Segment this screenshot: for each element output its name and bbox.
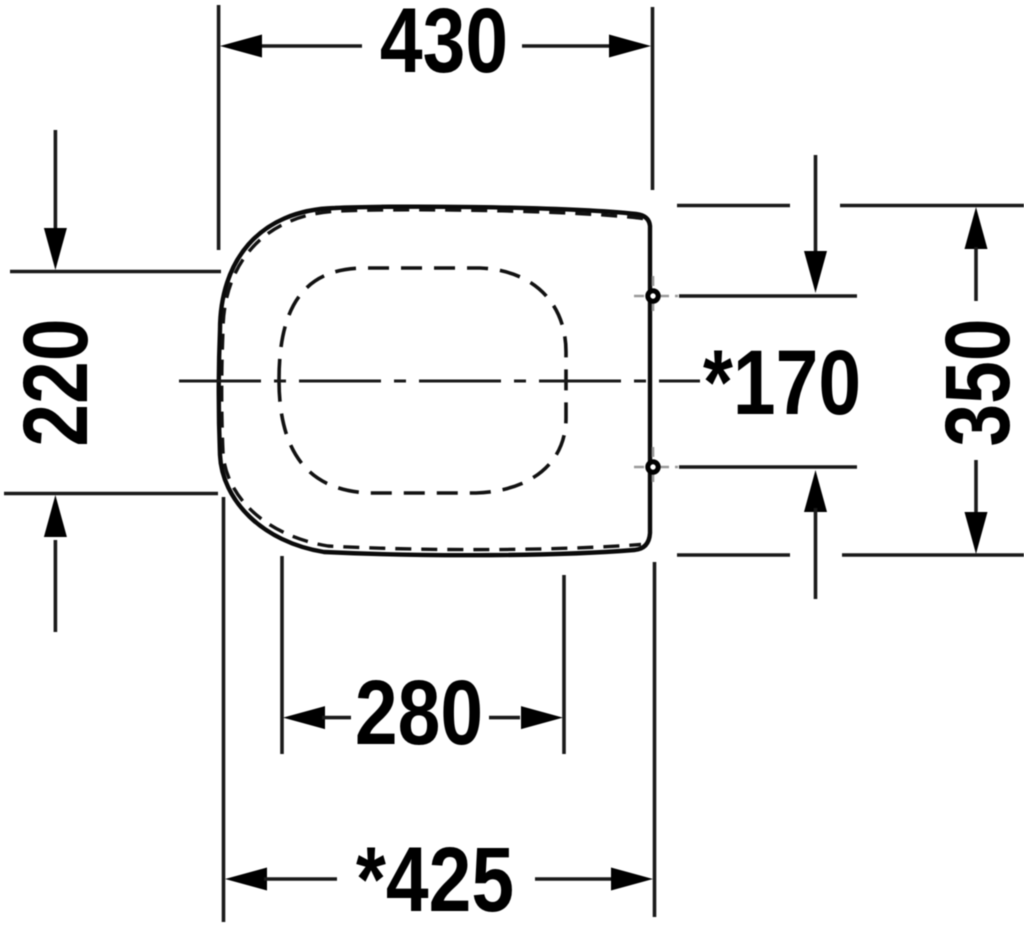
dimension 220 upper arrowhead (down) — [44, 228, 67, 270]
extension line top of 350 — [677, 204, 1024, 208]
extension line bottom of 220 — [4, 492, 218, 496]
dimension 425 right shaft — [535, 877, 615, 881]
dimension 280 left shaft — [322, 716, 351, 720]
extension line bottom of 350 — [677, 553, 1024, 557]
svg-text:350: 350 — [925, 318, 1024, 446]
svg-text:280: 280 — [355, 660, 483, 763]
dimension 280 right shaft — [489, 716, 520, 720]
dimension 425 left arrowhead — [225, 868, 267, 891]
dimension 350 upper shaft — [974, 247, 978, 301]
dimension 430 line right segment — [522, 44, 630, 48]
dimension 170 lower arrowhead (up) — [804, 470, 827, 512]
dimension 170 upper shaft — [814, 155, 818, 257]
svg-text:220: 220 — [3, 318, 106, 446]
extension line right of 280 — [562, 575, 566, 754]
dimension 280 left arrowhead — [283, 706, 325, 729]
dimension 350 lower arrowhead (down) — [965, 512, 988, 554]
dimension 220 lower arrow shaft — [54, 540, 58, 632]
dimension 350 lower shaft — [974, 460, 978, 516]
dimension 430 right arrowhead — [609, 35, 651, 58]
extension line lower hinge — [679, 465, 857, 469]
hinge circle lower — [648, 462, 658, 472]
dimension 430 left arrowhead — [220, 35, 262, 58]
dimension 350 upper arrowhead (up) — [965, 207, 988, 249]
hinge centerline lower (gray) — [634, 466, 678, 469]
dimension 430 line left segment — [250, 44, 362, 48]
svg-text:*425: *425 — [356, 827, 514, 925]
seat opening dashed ring — [279, 268, 566, 493]
extension line upper hinge — [679, 294, 857, 298]
dimension 425 right arrowhead — [611, 868, 653, 891]
extension line top of 220 — [10, 270, 221, 274]
svg-text:*170: *170 — [703, 330, 861, 433]
hinge centerline upper (gray) — [634, 295, 678, 298]
seat outer outline — [219, 207, 650, 556]
dimension 280 right arrowhead — [521, 706, 563, 729]
hinge circle upper — [648, 291, 658, 301]
dimension 220 upper arrow shaft — [54, 130, 58, 235]
extension line left of 430 — [217, 5, 221, 250]
extension line left of 425 — [222, 497, 226, 922]
extension line right of 430 — [651, 7, 655, 190]
dimension 170 upper arrowhead (down) — [804, 251, 827, 293]
horizontal centerline — [179, 380, 700, 383]
extension line left of 280 — [280, 556, 284, 754]
seat lid dashed inner contour — [222, 210, 643, 550]
dimension 425 left shaft — [264, 877, 337, 881]
svg-text:430: 430 — [380, 0, 508, 92]
dimension 170 lower shaft — [814, 508, 818, 599]
dimension 220 lower arrowhead (up) — [44, 495, 67, 537]
extension line right of 425 — [653, 562, 657, 917]
